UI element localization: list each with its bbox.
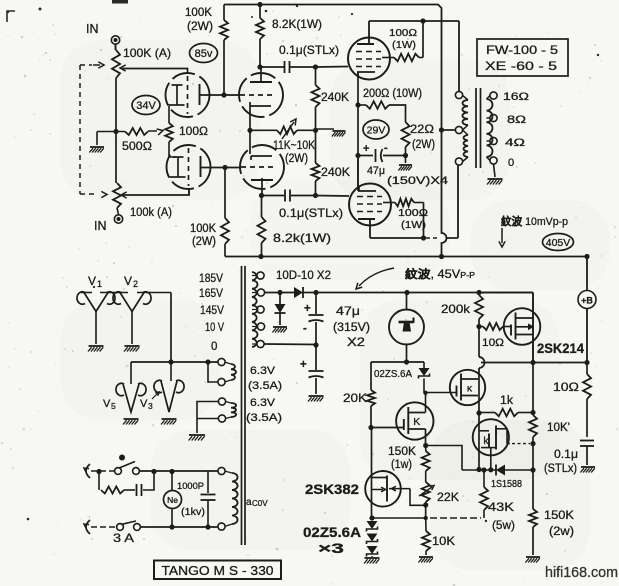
wire 0V tap to C4/C5: [265, 343, 316, 346]
svg-text:43K: 43K: [488, 500, 514, 514]
svg-text:10 V: 10 V: [205, 322, 224, 334]
svg-text:(315V): (315V): [333, 322, 370, 334]
resistor R18 10K (bias): [422, 517, 455, 551]
svg-text:+: +: [300, 359, 307, 371]
PT heater terminal 3: [218, 398, 225, 405]
potentiometer VR3 11K-10K(2W): [247, 119, 315, 165]
ground (cathode cap): [398, 156, 412, 171]
triode V1 (input, top): [166, 73, 210, 117]
svg-text:145V: 145V: [200, 305, 224, 317]
PT core: [242, 266, 246, 545]
svg-text:0.1μ: 0.1μ: [554, 449, 578, 461]
svg-text:02ZS.6A: 02ZS.6A: [374, 368, 412, 380]
terminal circle +B: [578, 291, 596, 309]
svg-text:200k: 200k: [441, 302, 471, 316]
cathode node wire x358: [355, 102, 360, 186]
svg-text:22Ω: 22Ω: [410, 124, 434, 136]
resistor R6 8.2K(1W) bottom: [258, 193, 332, 257]
ground stub (bias divider): [316, 129, 346, 137]
heater filament V3: [140, 362, 184, 412]
V6 plate wire: [370, 165, 458, 241]
resistor R17 150K(1W): [388, 446, 430, 483]
wire gate node down with hop: [479, 327, 485, 371]
diode D3 1S1588: [479, 465, 535, 491]
svg-text:22K: 22K: [437, 490, 459, 504]
OPT secondary terminal 0: [490, 157, 497, 164]
CT feed wire: [439, 127, 456, 132]
voltage oval 34V: [132, 96, 160, 115]
svg-text:紋波 10mVp-p: 紋波 10mVp-p: [501, 214, 568, 228]
label 2SK382: [305, 482, 359, 497]
resistor R2 100 ohm (shared cathode): [165, 106, 208, 157]
ground (10K): [418, 551, 433, 563]
svg-text:+: +: [363, 143, 369, 155]
PT heater winding 2: [226, 402, 237, 419]
MOSFET Q2 2SK382: [365, 428, 426, 519]
wire node D to V6 grid: [316, 195, 350, 198]
PT heater terminal 1: [218, 358, 225, 365]
svg-text:34V: 34V: [136, 100, 156, 112]
svg-text:47μ: 47μ: [367, 165, 385, 177]
label 2SK214: [537, 341, 584, 356]
voltage oval 29V: [363, 120, 389, 139]
ground (500 ohm): [89, 132, 104, 153]
ground (150K 2W): [525, 557, 540, 563]
AC plug arrow (line 1): [84, 464, 90, 478]
svg-text:(1W): (1W): [401, 219, 426, 231]
svg-text:κ: κ: [467, 383, 473, 395]
heater filament V5: [103, 362, 146, 412]
fuse/switch S1 (top): [115, 455, 140, 475]
svg-text:1000P: 1000P: [177, 481, 204, 492]
wire Q4 node to Q5 gate: [426, 446, 462, 471]
svg-text:11K~10K: 11K~10K: [273, 140, 315, 152]
heater bus top: [81, 293, 171, 363]
resistor R16 1K: [479, 395, 536, 416]
svg-text:8.2k(1W): 8.2k(1W): [273, 231, 331, 245]
AC bottom dashed wire: [91, 526, 115, 528]
B+ return rail (bottom): [225, 256, 587, 258]
wiper wire VR2: [121, 189, 189, 199]
junction dot Q4/150K: [423, 443, 428, 448]
svg-text:2SK382: 2SK382: [305, 482, 359, 497]
V3 cathode stem: [249, 106, 251, 130]
watermark hifi168.com: [545, 565, 618, 581]
label 185V: [199, 273, 223, 285]
PT HV terminal 165V: [252, 289, 265, 296]
triode V2 (input, bottom): [167, 145, 211, 189]
svg-text:(1w): (1w): [391, 459, 412, 471]
resistor R13 20K: [343, 362, 375, 428]
svg-text:2: 2: [133, 279, 138, 289]
B+ riser x441 with hop: [439, 130, 447, 259]
label 6.3V(3.5A) lower: [246, 397, 282, 424]
resistor R3 100K(2W) top: [185, 5, 228, 96]
svg-text:500Ω: 500Ω: [122, 141, 152, 153]
label 02Z5.6A: [303, 525, 361, 540]
ground (C5): [308, 396, 324, 402]
snubber capacitor: [124, 472, 154, 497]
svg-text:8Ω: 8Ω: [507, 114, 526, 126]
OPT secondary terminal 16ohm: [490, 92, 497, 99]
MOSFET Q3 error amp: [450, 370, 485, 472]
resistor R12 22ohm(2W): [402, 122, 436, 156]
svg-text:100K (A): 100K (A): [123, 46, 171, 60]
ground (V3 heater): [161, 419, 177, 425]
resistor R19 43K(5W): [480, 467, 515, 532]
triode V4 (driver, bottom): [240, 145, 284, 189]
node B junction dot: [222, 165, 227, 170]
svg-text:29V: 29V: [367, 124, 386, 136]
pentode V6 (output, bottom): [349, 184, 391, 226]
pentode V5 (output, top): [348, 38, 390, 80]
label 0: [508, 157, 514, 169]
heater winding 2 return: [197, 402, 219, 434]
arrow (ripple 10mV): [499, 228, 505, 247]
svg-text:XE -60 - 5: XE -60 - 5: [485, 59, 557, 73]
ground (zener stack): [364, 558, 380, 564]
svg-text:100Ω: 100Ω: [389, 27, 417, 39]
voltage oval 405V: [543, 234, 574, 251]
pot VR4 22K: [419, 482, 459, 517]
label 6.3V(3.5A) upper: [248, 365, 282, 392]
svg-text:8.2K(1W): 8.2K(1W): [272, 17, 322, 31]
svg-text:1S1588: 1S1588: [491, 479, 522, 490]
resistor R4 100K(2W) bottom: [190, 168, 229, 257]
OPT primary terminal (bottom): [455, 158, 462, 165]
svg-text:-: -: [384, 142, 388, 154]
dashed bias bus: [369, 505, 481, 520]
svg-text:×3: ×3: [318, 541, 345, 556]
svg-text:(3.5A): (3.5A): [246, 412, 282, 424]
OPT secondary terminal 4ohm: [490, 137, 497, 144]
constant current source CRD1: [389, 293, 424, 363]
PT HV terminal 0V: [252, 340, 264, 347]
svg-text:100K: 100K: [185, 7, 212, 19]
svg-text:(1W): (1W): [392, 39, 416, 51]
svg-text:0: 0: [508, 157, 514, 169]
wiper wire VR1 to V1 grid: [120, 65, 188, 74]
label AC100V: [246, 497, 268, 508]
label x3: [318, 541, 345, 556]
regulated output rail: [481, 360, 590, 365]
heater filament V2: [113, 292, 151, 312]
svg-text:(2W): (2W): [412, 139, 435, 151]
svg-text:-: -: [303, 323, 307, 335]
ground (V5 heater): [123, 419, 139, 425]
OPT primary terminal (CT): [455, 126, 462, 133]
PT heater winding 1: [225, 362, 237, 382]
svg-text:IN: IN: [94, 219, 107, 233]
annotation ripple 45Vp-p: [405, 267, 475, 281]
junction dot C4: [313, 290, 318, 295]
svg-text:20K: 20K: [343, 393, 367, 405]
heater label V2: [124, 274, 138, 289]
svg-text:(STLx): (STLx): [544, 463, 577, 475]
svg-text:k: k: [483, 435, 489, 447]
node A junction dot: [221, 92, 226, 97]
ground (heater winding 2): [189, 435, 205, 441]
svg-text:(2W): (2W): [285, 153, 308, 165]
svg-text:100Ω: 100Ω: [179, 126, 208, 138]
label 145V: [200, 305, 224, 317]
svg-text:185V: 185V: [199, 273, 223, 285]
V4 cathode stem: [249, 130, 251, 154]
svg-text:TANGO M S - 330: TANGO M S - 330: [162, 564, 274, 578]
output cap C7 0.1u STLx: [544, 441, 594, 476]
wire V1 plate to node A: [200, 94, 225, 96]
resistor R14 200K: [441, 295, 483, 329]
svg-text:165V: 165V: [199, 288, 223, 300]
wire zener to Q3 gate: [424, 392, 457, 394]
wire node B to V4 grid: [225, 167, 241, 169]
wire +B riser: [584, 254, 589, 291]
filter cap C5 47u: [300, 345, 324, 394]
voltage oval 85V: [190, 44, 218, 63]
svg-text:0.1μ(STLx): 0.1μ(STLx): [279, 43, 339, 57]
curved arrow (ripple 45V): [356, 268, 394, 289]
label 165V: [199, 288, 223, 300]
svg-text:1k: 1k: [500, 395, 513, 407]
triode V3 (driver, top): [239, 73, 283, 117]
wire V2 bottom stem: [188, 189, 190, 196]
svg-text:(2W): (2W): [192, 236, 216, 248]
PT primary terminal bottom: [218, 523, 225, 530]
svg-text:(2W): (2W): [187, 21, 213, 33]
svg-text:V: V: [88, 274, 96, 288]
svg-text:0: 0: [211, 341, 217, 353]
NFB dashed feedback line (left loop): [80, 62, 107, 198]
svg-text:10K': 10K': [547, 422, 570, 434]
potentiometer VR2 100K(A) bottom: [113, 183, 172, 219]
resistor R11 200ohm(10W): [358, 88, 422, 122]
PT HV terminal 145V: [252, 306, 264, 313]
heater bus horizontal: [131, 359, 218, 364]
PT primary winding: [225, 471, 238, 527]
node C dot (240K top): [313, 64, 318, 69]
heater filament V1: [77, 292, 115, 312]
wire V2 plate to node B: [201, 167, 226, 169]
svg-text:240K: 240K: [321, 90, 349, 104]
svg-text:100Ω: 100Ω: [398, 207, 428, 219]
top B+ rail: [224, 5, 442, 131]
junction dot rail/CCS: [404, 290, 409, 295]
resistor R22 10ohm (output): [553, 363, 591, 438]
OPT secondary terminal 8ohm: [490, 114, 497, 121]
svg-text:10D-10 X2: 10D-10 X2: [276, 268, 331, 282]
label 0: [211, 341, 217, 353]
svg-text:10Ω: 10Ω: [553, 382, 579, 394]
svg-text:1: 1: [97, 279, 102, 289]
ground (OPT secondary): [487, 164, 503, 185]
PT HV secondary winding: [252, 272, 258, 347]
svg-text:02Z5.6A: 02Z5.6A: [303, 525, 361, 540]
svg-text:(5w): (5w): [492, 518, 515, 532]
svg-text:(150V)X4: (150V)X4: [387, 175, 448, 187]
PT HV terminal 185V: [252, 272, 264, 279]
V5 cathode stem: [357, 72, 359, 105]
snubber resistor: [99, 472, 124, 494]
resistor R5 8.2K(1W) top: [256, 2, 322, 67]
svg-text:240K: 240K: [321, 165, 350, 179]
svg-text:150K: 150K: [388, 446, 416, 458]
svg-text:C0V: C0V: [252, 499, 268, 508]
rectifier diode D2: [275, 293, 286, 326]
gate stopper R15 10ohm: [479, 323, 511, 349]
resistor R21 150K(2W): [529, 471, 574, 556]
label 8 ohm: [507, 114, 526, 126]
junction dot node D: [313, 193, 318, 198]
rectifier diode D1: [265, 287, 309, 298]
label rectifier 10D-10 X2: [276, 268, 331, 282]
svg-text:2SK214: 2SK214: [537, 341, 584, 356]
wire +B to output rail: [586, 309, 588, 363]
corner rail to Q1 drain: [476, 290, 533, 295]
svg-text:(2w): (2w): [549, 526, 574, 538]
heater V2 center tap: [131, 312, 133, 345]
filter cap C4 47u: [303, 293, 324, 348]
V3 plate stem: [257, 64, 262, 82]
svg-text:100k (A): 100k (A): [130, 207, 172, 219]
coupling cap C2 0.1u(STLx) bottom: [262, 190, 344, 221]
svg-text:X2: X2: [347, 337, 365, 349]
label 3A: [113, 531, 134, 545]
svg-text:V: V: [140, 398, 148, 410]
ground (C7): [580, 467, 595, 473]
svg-text:0.1μ(STLx): 0.1μ(STLx): [279, 206, 343, 220]
MOSFET Q1 2SK214: [504, 293, 541, 363]
OPT primary winding: [462, 96, 468, 162]
svg-text:6.3V: 6.3V: [250, 365, 276, 377]
OPT primary terminal (top): [455, 91, 462, 98]
svg-text:+: +: [304, 303, 311, 315]
label 47u (315V) X2: [333, 306, 370, 349]
heater V1 center tap: [95, 312, 97, 345]
PT heater terminal 4: [218, 415, 225, 422]
ground (D2): [272, 327, 287, 333]
main filter rail: [309, 292, 533, 294]
V5 plate wire to OPT top: [369, 18, 459, 91]
svg-text:K: K: [413, 416, 420, 428]
svg-text:3: 3: [148, 401, 153, 411]
wire node A to V3 grid: [224, 94, 240, 96]
resistor R7 240K (upper): [312, 67, 350, 130]
title box TANGO MS-330: [154, 561, 281, 580]
label 4 ohm: [505, 137, 525, 149]
wire VR1 bottom to junction: [113, 78, 118, 183]
svg-text:V: V: [124, 274, 132, 288]
input jack J1 (top IN): [86, 22, 120, 50]
svg-text:IN: IN: [86, 22, 99, 36]
svg-text:+B: +B: [581, 296, 593, 306]
V6 cathode stem: [357, 156, 359, 192]
svg-text:4Ω: 4Ω: [505, 137, 525, 149]
svg-text:5: 5: [111, 401, 116, 411]
annotation ripple 10mVp-p: [501, 214, 568, 228]
AC plug arrow (line 2): [84, 520, 90, 534]
svg-text:47μ: 47μ: [336, 306, 360, 318]
ground (V2 heater): [124, 346, 140, 352]
zener ZD0 02ZS.6A: [374, 362, 430, 393]
V5 screen resistor R9 100ohm(1W): [381, 21, 423, 61]
PT HV terminal 10V: [252, 323, 265, 330]
input jack J2 (bottom IN): [94, 208, 123, 233]
svg-text:(1kv): (1kv): [181, 507, 205, 518]
svg-text:V: V: [103, 398, 111, 410]
junction dot CCS bottom: [404, 359, 409, 364]
ground (V1 heater): [88, 346, 104, 352]
svg-text:405V: 405V: [546, 237, 571, 249]
svg-text:16Ω: 16Ω: [503, 91, 529, 103]
bypass cap C3 47u (cathode): [358, 142, 448, 187]
svg-text:100K: 100K: [190, 223, 216, 235]
svg-text:6.3V: 6.3V: [250, 397, 276, 409]
neon lamp Ne: [164, 472, 182, 528]
zener stack 02Z5.6A x3: [367, 521, 378, 557]
MOSFET Q4 (K): [368, 391, 433, 446]
svg-text:3 A: 3 A: [113, 531, 134, 545]
AC top wire: [139, 469, 218, 474]
AC bottom wire: [140, 524, 218, 529]
model box FW-100-5 / XE-60-5: [477, 39, 568, 76]
svg-text:Ne: Ne: [167, 495, 178, 505]
svg-text:150K: 150K: [544, 510, 574, 522]
PT primary terminal top: [218, 467, 225, 474]
MOSFET Q5 (k): [473, 419, 536, 472]
wire Q5 source bus: [462, 469, 479, 471]
OPT secondary winding: [487, 96, 493, 161]
cap C6 1000P(1KV): [177, 472, 216, 528]
svg-text:85v: 85v: [195, 48, 213, 60]
fuse/switch S2 (bottom): [117, 521, 141, 530]
svg-text:hifi168.com: hifi168.com: [545, 565, 618, 581]
svg-text:FW-100 - 5: FW-100 - 5: [486, 43, 558, 57]
junction dot rail-R5: [258, 254, 263, 259]
potentiometer VR1 100K(A) top: [112, 46, 171, 78]
wire CCS bottom node: [371, 361, 424, 363]
V4 plate stem: [261, 178, 263, 196]
V6 screen resistor R10 100ohm(1W): [383, 199, 428, 238]
svg-text:200Ω (10W): 200Ω (10W): [363, 88, 422, 100]
svg-text:10Ω: 10Ω: [482, 337, 504, 349]
label 16 ohm: [503, 91, 529, 103]
svg-text:(3.5A): (3.5A): [248, 380, 282, 392]
OPT core: [476, 88, 481, 168]
resistor R1 500 ohm: [97, 128, 163, 153]
AC wire to fuse: [91, 469, 114, 474]
wire node C to V5 grid: [316, 66, 349, 69]
coupling cap C1 0.1u(STLx) top: [260, 43, 339, 73]
label 10V: [205, 322, 224, 334]
heater label V1: [88, 274, 102, 289]
svg-text:10K: 10K: [432, 536, 455, 548]
resistor R8 240K (lower): [312, 130, 351, 195]
junction dot VR3-R7: [313, 128, 318, 133]
PT heater terminal 2: [208, 362, 225, 386]
resistor R20 10K (sense top): [529, 363, 570, 471]
